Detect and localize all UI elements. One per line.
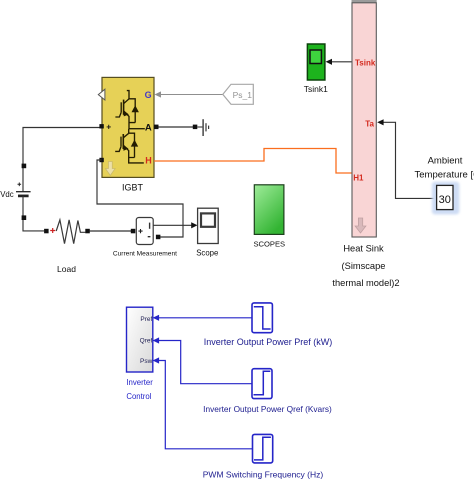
IGBT icon upper diode arrow [132,105,139,112]
arrowhead into Ta [377,119,383,125]
wire: constant 30 to heat sink Ta [383,122,437,198]
block Heat Sink (Simscape thermal model)2 [352,3,376,237]
svg-text:H: H [145,156,152,166]
port square at A port [154,125,159,130]
svg-text:Tsink1: Tsink1 [304,84,328,94]
block Tsink1 (green display) [307,44,325,80]
wire: battery top to IGBT + port [23,128,100,193]
port square at current measurement minus [156,235,161,240]
label (Simscape [342,261,386,271]
svg-text:H1: H1 [353,173,364,182]
IGBT block body [102,77,154,177]
port square near electrical reference [193,125,198,130]
svg-text:Qref: Qref [140,337,153,344]
tag Ps_1 pentagon [223,84,254,104]
arrowhead into Pref [153,315,160,321]
label Current Measurement [113,251,177,258]
wire: IGBT H to heat sink H1 (orange) [154,149,352,174]
label thermal model)2 [332,278,399,288]
IGBT icon lower emitter arrow [123,145,129,151]
IGBT icon upper emitter arrow [123,110,129,116]
heat sink port label Ta [365,119,374,128]
block Inverter Control [127,307,153,372]
step source PWM Switching Frequency [253,434,273,463]
svg-text:(Simscape: (Simscape [342,261,386,271]
label Heat Sink [343,244,384,254]
svg-text:Heat Sink: Heat Sink [343,244,384,254]
svg-text:IGBT: IGBT [122,183,144,193]
svg-text:SCOPES: SCOPES [253,240,285,249]
svg-text:Load: Load [57,264,76,274]
constant block 30 [437,185,453,209]
svg-text:Ps_1: Ps_1 [233,90,253,100]
wire: heat sink Tsink to Tsink1 [332,61,353,63]
label Load [57,264,76,274]
step source Inverter Output Power Qref [252,369,272,399]
port square right of resistor [85,229,90,234]
block SCOPES (green gradient) [254,185,284,235]
svg-text:Tsink: Tsink [355,58,376,67]
IGBT port label H [145,156,152,166]
arrowhead into Psw [153,357,160,363]
label Tsink1 [304,84,328,94]
label Temperature [C] [415,169,474,180]
port square left of resistor [44,229,49,234]
svg-text:A: A [145,122,152,133]
heat sink port label H1 [353,173,364,182]
IGBT icon upper transistor [115,91,135,129]
label Ambient [428,156,463,167]
label Scope [196,248,218,257]
svg-text:Inverter Output Power Pref (kW: Inverter Output Power Pref (kW) [204,337,333,347]
arrowhead into Tsink1 [326,59,332,65]
IGBT left conserving-port notch [98,89,105,100]
svg-text:Current Measurement: Current Measurement [113,251,177,258]
label SCOPES [253,240,285,249]
port square at current measurement input [131,229,136,234]
svg-text:+: + [106,122,111,132]
svg-text:PWM Switching Frequency (Hz): PWM Switching Frequency (Hz) [203,469,324,479]
block Scope [198,208,219,243]
svg-text:thermal model)2: thermal model)2 [332,278,399,288]
port square on battery top wire [22,164,27,169]
label Vdc [0,190,14,199]
label Inverter Output Power Pref (kW) [204,337,333,347]
IGBT internal down arrow [105,162,115,176]
label PWM Switching Frequency (Hz) [203,469,324,479]
svg-text:Ta: Ta [365,119,374,128]
svg-text:G: G [145,90,152,100]
wire: IGBT A port to electrical reference [156,126,195,128]
wire: current measurement i to scope [153,224,191,226]
resistor Load zigzag [56,220,85,244]
svg-text:Ambient: Ambient [428,156,463,167]
wire: IGBT bottom-left loop to current measurement minus [97,160,183,237]
svg-text:Pref: Pref [140,316,152,323]
svg-text:Scope: Scope [196,248,218,257]
svg-text:30: 30 [439,194,451,206]
DC source Vdc [16,183,31,196]
wire: resistor to current measurement [90,230,132,232]
wire: Ps_1 tag to IGBT G port (gray) [161,94,223,96]
label IGBT [122,183,144,193]
svg-text:Inverter: Inverter [126,378,153,387]
constant block 30 selection glow [432,182,459,215]
label Control [126,392,151,401]
wire: step Pref to inverter control [159,317,252,319]
wire: battery bottom to load resistor [23,196,44,231]
IGBT icon lower diode arrow [131,140,138,147]
IGBT port label G [145,90,152,100]
heat sink port label Tsink [355,58,376,67]
label Inverter [126,378,153,387]
arrowhead into Qref [153,337,160,343]
svg-text:Vdc: Vdc [0,190,14,199]
block Current Measurement [136,218,153,245]
IGBT + port label [106,122,111,132]
svg-text:Inverter Output Power Qref (Kv: Inverter Output Power Qref (Kvars) [203,404,332,414]
step source Inverter Output Power Pref [252,303,272,333]
IGBT port label A [145,122,152,133]
svg-text:Control: Control [126,392,151,401]
electrical reference ground [197,119,208,136]
arrowhead into G port [155,91,162,97]
heat sink internal down arrow [355,218,366,233]
svg-text:Temperature [C]: Temperature [C] [415,169,474,180]
IGBT + port square [99,124,103,128]
wire: step PWM to inverter control [159,361,252,449]
wire: step Qref to inverter control [159,341,252,384]
red plus polarity mark [50,228,55,233]
IGBT bottom-left port square [99,158,103,162]
IGBT icon mid rail to A [129,128,145,130]
label Inverter Output Power Qref (Kvars) [203,404,332,414]
IGBT icon lower transistor [115,129,144,163]
port square on battery bottom wire [22,215,27,220]
arrowhead into scope [191,222,197,228]
heat sink top gray strip [352,0,377,3]
svg-text:Psw: Psw [140,358,153,365]
